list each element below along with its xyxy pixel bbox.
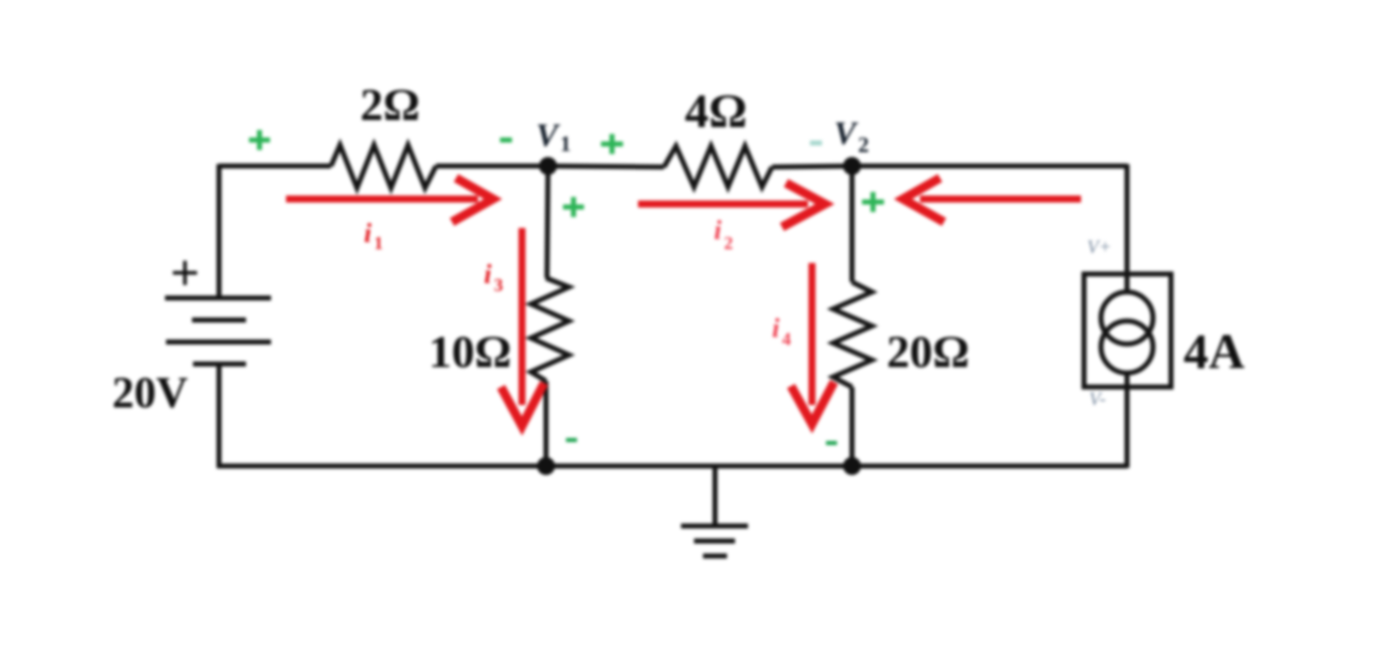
wire: right vertical below current source: [1125, 373, 1130, 468]
wire: top left segment: [219, 164, 331, 169]
svg-text:2: 2: [724, 233, 733, 253]
polarity minus right of R2 (faint teal): [810, 141, 822, 146]
node V2 junction dot: [843, 157, 861, 175]
polarity plus top of R4 (green): [862, 192, 884, 212]
svg-text:V: V: [834, 116, 859, 152]
wire: right vertical above current source: [1125, 164, 1130, 292]
svg-text:i: i: [772, 313, 780, 343]
current source I1 4A box: [1084, 274, 1171, 387]
svg-text:+: +: [170, 245, 200, 302]
polarity minus right of R1 (green): [500, 138, 512, 143]
polarity plus left of R1 (green): [249, 130, 270, 150]
resistor R3 10ohm zigzag: [531, 278, 569, 381]
svg-text:i: i: [484, 259, 492, 289]
resistor R1 2ohm zigzag: [331, 145, 436, 188]
svg-text:4Ω: 4Ω: [685, 85, 747, 138]
node V1 junction dot: [539, 157, 557, 175]
svg-text:2Ω: 2Ω: [360, 79, 420, 130]
svg-text:V+: V+: [1087, 237, 1111, 258]
svg-text:3: 3: [494, 275, 503, 295]
wire: left vertical below battery: [217, 364, 222, 468]
svg-text:4A: 4A: [1183, 323, 1244, 379]
wire: ground stem: [713, 466, 718, 526]
svg-text:i: i: [714, 215, 722, 245]
ground symbol bars: [681, 526, 748, 556]
current arrow i3: [501, 228, 544, 426]
wire: top between node V1 and R2: [548, 166, 664, 167]
current source I1 circle lower: [1101, 321, 1153, 373]
svg-text:1: 1: [560, 131, 571, 156]
current arrow i1: [286, 178, 493, 222]
svg-text:20V: 20V: [112, 368, 188, 417]
resistor R4 20ohm zigzag: [833, 282, 872, 387]
wire: bottom horizontal: [217, 464, 1127, 469]
svg-text:i: i: [364, 218, 372, 248]
wire: V1 branch lower: [544, 381, 549, 468]
wire: top right segment to corner: [852, 164, 1127, 169]
svg-text:10Ω: 10Ω: [429, 326, 512, 377]
polarity plus left of R2 (green): [601, 134, 623, 154]
node bottom-right junction dot: [843, 457, 861, 475]
svg-text:4: 4: [782, 329, 791, 349]
svg-text:1: 1: [374, 233, 383, 253]
current arrow i4: [791, 263, 834, 424]
wire: V1 branch upper: [547, 166, 548, 278]
wire: left vertical from corner to battery: [217, 164, 222, 297]
current arrow i2: [638, 183, 825, 227]
polarity minus bottom of R4 (green): [826, 441, 837, 445]
svg-text:20Ω: 20Ω: [887, 326, 970, 377]
current source arrow (points left toward V2): [903, 178, 1081, 222]
wire: top between R2 and node V2: [772, 166, 852, 167]
battery source 20V plates: [165, 298, 271, 364]
wire: top between R1 and node V1: [436, 164, 548, 169]
wire: V2 branch lower: [850, 387, 855, 468]
svg-text:2: 2: [858, 132, 869, 157]
wire: V2 branch upper: [850, 166, 855, 282]
polarity minus bottom of R3 (green): [566, 438, 577, 442]
polarity plus top of R3 (green): [563, 197, 584, 217]
node bottom-left junction dot: [537, 457, 555, 475]
resistor R2 4ohm zigzag: [664, 146, 772, 187]
svg-text:V: V: [536, 118, 561, 154]
current source I1 circle upper: [1101, 292, 1153, 344]
svg-text:V-: V-: [1089, 389, 1106, 410]
